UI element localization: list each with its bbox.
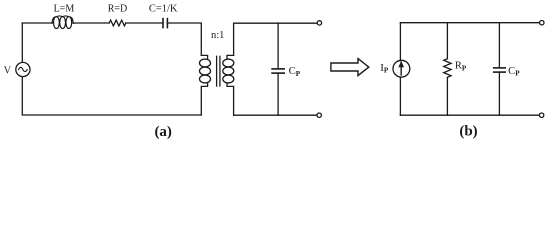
wire: circuit a left side with source <box>22 23 201 115</box>
resistor Rp wire bottom <box>446 77 448 115</box>
terminal top right of circuit a <box>317 21 321 25</box>
svg-text:R=D: R=D <box>108 4 128 15</box>
capacitor Cp branch wire top (circuit b) <box>498 23 500 68</box>
transformer primary winding loop 2 <box>200 67 211 75</box>
svg-text:V: V <box>4 66 12 77</box>
capacitor Cp plate top (circuit a) <box>272 68 284 70</box>
current source arrow <box>400 66 402 75</box>
svg-text:(a): (a) <box>154 124 172 140</box>
transformer primary winding loop 1 <box>200 59 211 67</box>
transformer core line right <box>219 56 221 86</box>
svg-text:n:1: n:1 <box>211 30 224 41</box>
capacitor C=1/K plate left <box>162 19 164 28</box>
transformer primary winding loop 3 <box>200 75 211 83</box>
block arrow between circuits <box>331 59 369 76</box>
resistor R=D <box>109 20 126 26</box>
capacitor Cp plate bottom (circuit b) <box>494 71 506 73</box>
inductor L=M <box>52 16 75 29</box>
transformer secondary jog top <box>227 55 234 59</box>
svg-text:C=1/K: C=1/K <box>149 4 178 15</box>
wire: circuit a top rail left segment <box>22 22 52 24</box>
transformer core line left <box>216 56 218 86</box>
terminal bottom right of circuit b <box>539 113 543 117</box>
capacitor Cp plate top (circuit b) <box>494 67 506 69</box>
capacitor Cp branch wire bottom (circuit b) <box>498 72 500 115</box>
circuit b bottom rail <box>400 114 539 116</box>
svg-text:(b): (b) <box>459 124 477 140</box>
svg-text:CP: CP <box>289 65 301 78</box>
svg-text:L=M: L=M <box>54 4 75 15</box>
circuit b left wire <box>399 23 401 116</box>
terminal bottom right of circuit a <box>317 113 321 117</box>
voltage source V circle <box>16 62 30 76</box>
capacitor Cp plate bottom (circuit a) <box>272 72 284 74</box>
capacitor Cp branch wire top (circuit a) <box>277 23 279 69</box>
wire: resistor to capacitor C <box>126 22 163 24</box>
wire: secondary top rail <box>234 23 318 55</box>
circuit b top rail <box>400 22 539 24</box>
svg-text:RP: RP <box>455 61 467 73</box>
transformer secondary winding loop 2 <box>223 67 234 75</box>
transformer secondary winding loop 1 <box>223 59 234 67</box>
wire: inductor to resistor <box>75 22 109 24</box>
transformer secondary winding loop 3 <box>223 75 234 83</box>
wire: secondary bottom rail <box>234 114 317 116</box>
resistor Rp zigzag <box>444 59 451 78</box>
wire: capacitor to transformer corner <box>167 23 201 55</box>
capacitor C=1/K plate right <box>166 19 168 28</box>
transformer U1 primary jog top <box>201 55 207 59</box>
terminal top right of circuit b <box>540 21 544 25</box>
current source Ip circle <box>393 60 410 77</box>
svg-text:IP: IP <box>380 62 389 75</box>
transformer secondary jog bottom <box>227 83 234 115</box>
capacitor Cp branch wire bottom (circuit a) <box>277 73 279 115</box>
voltage source sine symbol <box>19 67 28 71</box>
resistor Rp wire top <box>446 23 448 59</box>
transformer primary jog bottom <box>201 83 207 115</box>
svg-text:CP: CP <box>508 65 520 78</box>
